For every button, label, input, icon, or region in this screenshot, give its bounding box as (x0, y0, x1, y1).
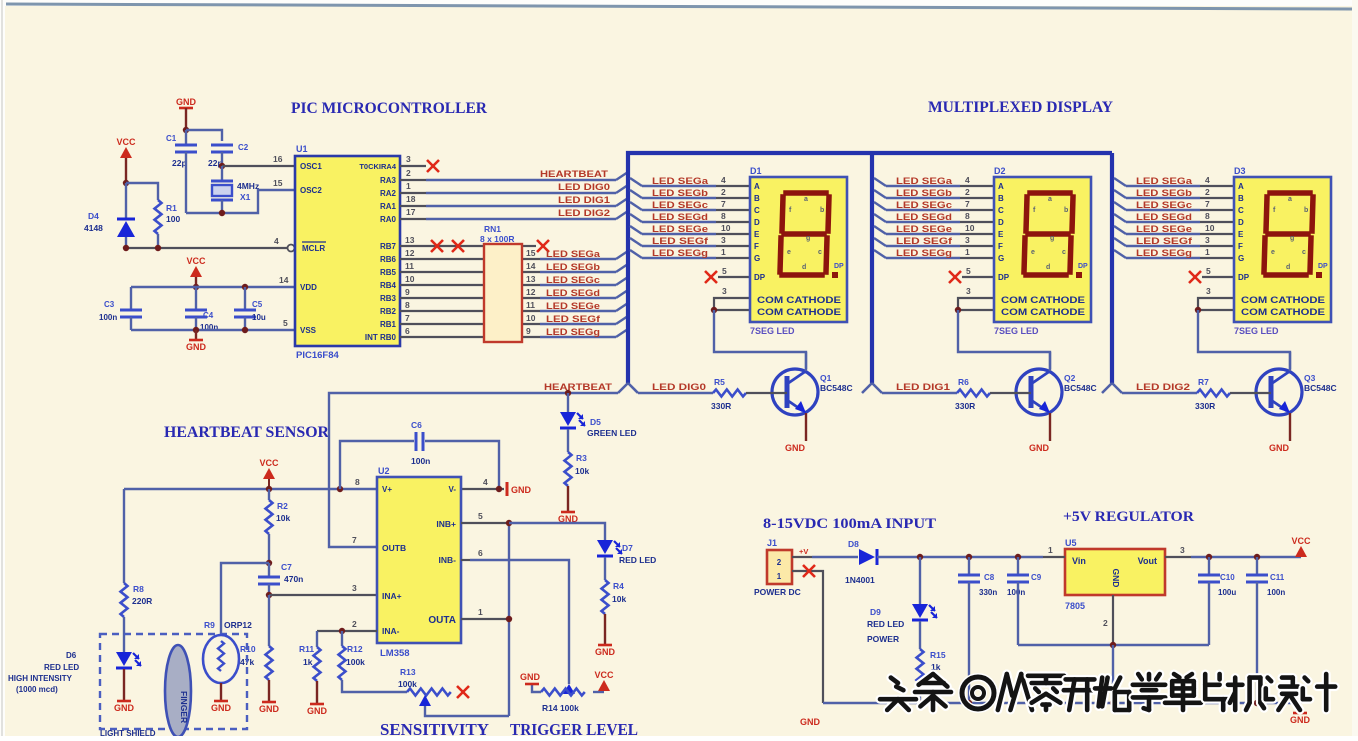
ground under LDR (211, 701, 232, 713)
ground under C4 (186, 340, 207, 352)
wire INB- pin (461, 559, 470, 561)
svg-text:VCC: VCC (116, 137, 136, 147)
wire to D7 (509, 523, 605, 540)
svg-text:C8: C8 (984, 573, 995, 582)
ground at R14 left (525, 683, 539, 686)
svg-text:2: 2 (352, 619, 357, 629)
svg-text:8-15VDC 100mA INPUT: 8-15VDC 100mA INPUT (763, 516, 936, 532)
svg-text:GND: GND (511, 485, 532, 495)
wire to C7 (268, 563, 270, 576)
svg-text:2: 2 (406, 168, 411, 178)
svg-text:4: 4 (483, 477, 488, 487)
svg-text:VSS: VSS (300, 326, 317, 335)
wire RB3 to RN1 (400, 297, 484, 299)
wire RA4 no-connect (400, 165, 426, 167)
svg-text:RN1: RN1 (484, 224, 501, 234)
wire INA- net (317, 630, 377, 632)
svg-text:GND: GND (307, 706, 328, 716)
svg-text:POWER DC: POWER DC (754, 587, 801, 597)
svg-text:HEARTBEAT: HEARTBEAT (540, 169, 609, 179)
no-connect style X at J1 (803, 565, 815, 577)
ground under R3 (558, 512, 579, 524)
capacitor C5 (234, 310, 256, 317)
svg-text:R4: R4 (613, 581, 624, 591)
svg-text:11: 11 (526, 300, 535, 310)
svg-text:17: 17 (406, 207, 416, 217)
svg-text:1: 1 (1048, 545, 1053, 555)
wire INB- to R14 wiper (470, 560, 569, 684)
svg-text:C7: C7 (281, 562, 292, 572)
wire RB1 to RN1 (400, 323, 484, 325)
svg-text:U2: U2 (378, 466, 390, 476)
svg-text:8 x 100R: 8 x 100R (480, 234, 515, 244)
svg-text:RA2: RA2 (380, 189, 397, 198)
no-connect X on RA4 (427, 160, 439, 172)
svg-text:(1000 mcd): (1000 mcd) (16, 685, 58, 694)
svg-text:INA+: INA+ (382, 591, 402, 601)
svg-text:LED SEGg: LED SEGg (546, 327, 600, 337)
svg-text:C6: C6 (411, 420, 422, 430)
svg-text:C11: C11 (1270, 573, 1285, 582)
display D1 (7-segment) with transistor Q1 (618, 175, 853, 453)
svg-text:C2: C2 (238, 143, 249, 152)
wire R14 right to VCC (593, 691, 604, 693)
svg-text:LED SEGd: LED SEGd (546, 288, 600, 298)
svg-text:R8: R8 (133, 584, 144, 594)
svg-text:INB+: INB+ (436, 519, 456, 529)
svg-text:12: 12 (526, 287, 536, 297)
svg-text:RA3: RA3 (380, 176, 397, 185)
wire VCC to R2 (268, 489, 270, 500)
wire net LED SEGf from RN1 to bus (522, 323, 540, 325)
finger (sensor target) (165, 645, 191, 737)
wire net LED DIG0 from PIC (400, 192, 426, 194)
svg-text:22p: 22p (172, 158, 187, 168)
wire RB6 to RN1 (400, 258, 484, 260)
diode D4 (125, 183, 127, 219)
svg-text:VCC: VCC (594, 670, 614, 680)
wire C1 bottom (185, 152, 187, 213)
svg-text:C1: C1 (166, 134, 177, 143)
wire J1 +V pin (792, 556, 812, 558)
wire VCC down (125, 158, 127, 183)
svg-text:Q2: Q2 (1064, 373, 1076, 383)
no-connect X at R13 end (457, 686, 469, 698)
svg-text:R3: R3 (576, 453, 587, 463)
wire to LDR (221, 563, 269, 636)
wire to R12 (341, 631, 343, 646)
capacitor C11 (1246, 575, 1268, 582)
svg-text:3: 3 (406, 154, 411, 164)
no-connect X on RB7 stub (452, 240, 464, 252)
svg-text:HEARTBEAT: HEARTBEAT (544, 382, 613, 392)
svg-text:RB7: RB7 (380, 242, 397, 251)
wire net LED SEGb from RN1 to bus (522, 271, 540, 273)
ground under R11 (307, 704, 328, 716)
svg-text:LED DIG1: LED DIG1 (558, 195, 610, 205)
svg-text:+V: +V (799, 547, 808, 556)
svg-text:D7: D7 (622, 543, 633, 553)
svg-text:INB-: INB- (439, 555, 457, 565)
wire RB7 to RN1 (400, 245, 484, 247)
display D2 (7-segment) with transistor Q2 (862, 175, 1097, 453)
ground at op-amp V- (506, 482, 509, 496)
svg-text:GND: GND (186, 342, 207, 352)
wire C2 bottom to OSC1 node (221, 152, 223, 166)
svg-text:6: 6 (478, 548, 483, 558)
ground under R10 (259, 702, 280, 714)
svg-text:D1: D1 (750, 166, 762, 176)
svg-text:10k: 10k (612, 594, 626, 604)
potentiometer R14 (trigger level) (563, 684, 575, 694)
svg-text:OSC1: OSC1 (300, 162, 322, 171)
svg-text:9: 9 (526, 326, 531, 336)
svg-text:Q3: Q3 (1304, 373, 1316, 383)
svg-text:10: 10 (526, 313, 536, 323)
wire bus 3 vertical (1110, 153, 1114, 383)
potentiometer R13 (sensitivity) (407, 689, 451, 696)
svg-text:C3: C3 (104, 300, 115, 309)
svg-text:5: 5 (283, 318, 288, 328)
svg-text:TRIGGER LEVEL: TRIGGER LEVEL (510, 720, 638, 736)
svg-text:14: 14 (526, 261, 536, 271)
capacitor C10 (1198, 575, 1220, 582)
svg-text:OUTA: OUTA (428, 615, 456, 626)
svg-text:PIC MICROCONTROLLER: PIC MICROCONTROLLER (291, 100, 487, 117)
VCC at R14 right (598, 680, 610, 691)
VCC sensor (259, 458, 279, 479)
svg-text:7: 7 (405, 313, 410, 323)
svg-text:D5: D5 (590, 417, 601, 427)
svg-text:R1: R1 (166, 203, 177, 213)
svg-text:LED DIG2: LED DIG2 (1136, 382, 1190, 392)
svg-text:LED SEGf: LED SEGf (546, 314, 601, 324)
resistor R12 (339, 646, 346, 680)
svg-text:Vout: Vout (1138, 556, 1157, 566)
svg-text:10k: 10k (276, 513, 290, 523)
svg-text:Vin: Vin (1072, 556, 1086, 566)
svg-text:J1: J1 (767, 538, 777, 548)
svg-text:FINGER: FINGER (179, 691, 189, 723)
svg-text:RED LED: RED LED (867, 619, 904, 629)
svg-text:GND: GND (176, 97, 197, 107)
wire to C11 (1256, 557, 1258, 574)
svg-text:D3: D3 (1234, 166, 1246, 176)
wire VDD rail (131, 286, 295, 288)
svg-text:7805: 7805 (1065, 601, 1085, 611)
svg-text:HEARTBEAT SENSOR: HEARTBEAT SENSOR (164, 424, 329, 441)
svg-text:330n: 330n (979, 588, 997, 597)
wire riser to INB+ (508, 523, 510, 716)
wire cap C1 top stub (185, 130, 187, 144)
wire to R1 top (126, 183, 158, 200)
crystal X1 (221, 166, 223, 181)
svg-text:RED LED: RED LED (44, 663, 79, 672)
ground under D6 (114, 701, 135, 713)
wire segment bus (thick) with top rail (628, 153, 1112, 383)
svg-text:RB6: RB6 (380, 255, 397, 264)
svg-text:16: 16 (273, 154, 283, 164)
svg-text:13: 13 (405, 235, 415, 245)
wire U5 GND pin (1112, 595, 1114, 645)
svg-text:D8: D8 (848, 539, 859, 549)
svg-text:U1: U1 (296, 144, 308, 154)
wire C4 top (195, 287, 197, 309)
svg-text:15: 15 (526, 248, 536, 258)
svg-text:LED SEGc: LED SEGc (546, 275, 600, 285)
svg-text:LED DIG0: LED DIG0 (652, 382, 706, 392)
svg-text:2: 2 (777, 558, 782, 567)
wire R1 bottom (157, 234, 159, 248)
display D3 (7-segment) with transistor Q3 (1102, 175, 1337, 453)
svg-text:GREEN LED: GREEN LED (587, 428, 637, 438)
svg-text:GND: GND (114, 703, 135, 713)
svg-text:C5: C5 (252, 300, 263, 309)
wire net LED DIG2 from PIC (400, 218, 426, 220)
wire GND to caps (185, 108, 187, 130)
svg-text:3: 3 (1180, 545, 1185, 555)
capacitor C3 (120, 310, 142, 317)
svg-text:4: 4 (274, 236, 279, 246)
svg-text:R11: R11 (299, 644, 314, 654)
svg-text:R12: R12 (347, 644, 363, 654)
svg-text:1: 1 (406, 181, 411, 191)
wire +V to D8 (812, 556, 858, 558)
svg-text:100n: 100n (99, 313, 117, 322)
svg-text:6: 6 (405, 326, 410, 336)
svg-text:D9: D9 (870, 607, 881, 617)
svg-text:100k: 100k (346, 657, 365, 667)
svg-text:GND: GND (211, 703, 232, 713)
wire R14 left to GND (532, 685, 541, 692)
svg-text:VDD: VDD (300, 283, 317, 292)
VCC for MCLR pullup (116, 137, 136, 158)
resistor network RN1 (484, 244, 522, 342)
svg-text:R13: R13 (400, 667, 416, 677)
svg-text:RED LED: RED LED (619, 555, 656, 565)
wire net LED SEGc from RN1 to bus (522, 284, 540, 286)
wire VCC rail of sensor (124, 488, 377, 490)
svg-text:1: 1 (478, 607, 483, 617)
svg-text:T0CKIRA4: T0CKIRA4 (359, 162, 397, 171)
svg-text:Q1: Q1 (820, 373, 832, 383)
capacitor C6 (416, 432, 423, 451)
resistor R10 (266, 646, 273, 680)
svg-text:LED SEGa: LED SEGa (546, 249, 601, 259)
diode D8 1N4001 (859, 549, 875, 565)
svg-text:INT RB0: INT RB0 (365, 333, 397, 342)
resistor R4 (602, 580, 609, 614)
svg-text:10u: 10u (252, 313, 266, 322)
wire OSC1 pin (222, 165, 295, 167)
capacitor C2 (211, 145, 233, 152)
svg-text:V-: V- (448, 485, 456, 494)
wire C3 top (130, 287, 132, 309)
svg-text:11: 11 (405, 261, 414, 271)
svg-text:R5: R5 (714, 377, 725, 387)
svg-text:100k: 100k (398, 679, 417, 689)
svg-text:SENSITIVITY: SENSITIVITY (380, 720, 489, 736)
svg-text:15: 15 (273, 178, 283, 188)
connector J1 (767, 550, 792, 584)
wire C5 top (244, 287, 246, 309)
wire J1 pin1 to ground rail (792, 571, 823, 703)
svg-text:GND: GND (800, 717, 821, 727)
ground at output rail (1290, 713, 1311, 725)
svg-text:LIGHT SHIELD: LIGHT SHIELD (100, 729, 156, 736)
svg-text:7SEG LED: 7SEG LED (750, 326, 795, 336)
VCC for VDD (186, 256, 206, 277)
dashed sensor enclosure box (100, 634, 247, 729)
svg-text:14: 14 (279, 275, 289, 285)
wire MCLR net (126, 247, 287, 249)
resistor R2 (266, 500, 273, 534)
ground under R4 (595, 645, 616, 657)
svg-text:C9: C9 (1031, 573, 1042, 582)
svg-text:470n: 470n (284, 574, 303, 584)
svg-text:D6: D6 (66, 651, 77, 660)
svg-text:ORP12: ORP12 (224, 620, 252, 630)
svg-text:POWER: POWER (867, 634, 899, 644)
svg-text:INA-: INA- (382, 626, 400, 636)
wire regulator ground link (1018, 644, 1209, 646)
svg-text:OSC2: OSC2 (300, 186, 322, 195)
wire RB4 to RN1 (400, 284, 484, 286)
wire RB5 to RN1 (400, 271, 484, 273)
LED D7 (red) (597, 540, 622, 556)
svg-text:GND: GND (1111, 569, 1121, 588)
wire to C10 (1208, 557, 1210, 574)
svg-text:HIGH INTENSITY: HIGH INTENSITY (8, 674, 73, 683)
wire to D9 (919, 557, 921, 604)
svg-text:LM358: LM358 (380, 648, 410, 659)
wire R13 wiper (425, 706, 509, 716)
svg-text:D2: D2 (994, 166, 1006, 176)
svg-text:LED SEGb: LED SEGb (546, 262, 601, 272)
wire OUTA pin (461, 618, 509, 620)
svg-text:OUTB: OUTB (382, 543, 406, 553)
op-amp U2 LM358 (377, 477, 461, 643)
resistor R8 (121, 583, 128, 617)
svg-text:GND: GND (595, 647, 616, 657)
wire INB+ pin (461, 522, 509, 524)
wire RB0 to RN1 (400, 336, 484, 338)
svg-text:8: 8 (355, 477, 360, 487)
svg-text:4MHz: 4MHz (237, 181, 259, 191)
svg-text:1: 1 (777, 572, 782, 581)
wire RB2 to RN1 (400, 310, 484, 312)
LDR R9 ORP12 (203, 635, 239, 683)
svg-text:R6: R6 (958, 377, 969, 387)
capacitor C4 (185, 310, 207, 317)
svg-text:8: 8 (405, 300, 410, 310)
wire OSC2 net (186, 190, 295, 213)
wire V- pin to GND (461, 488, 504, 490)
svg-text:RB1: RB1 (380, 320, 397, 329)
regulator U5 7805 (1065, 549, 1165, 595)
svg-text:GND: GND (520, 672, 541, 682)
svg-text:7SEG LED: 7SEG LED (994, 326, 1039, 336)
svg-text:4148: 4148 (84, 223, 103, 233)
svg-text:R15: R15 (930, 650, 946, 660)
LED D9 (power) (912, 604, 937, 620)
svg-text:10k: 10k (575, 466, 589, 476)
wire net LED SEGe from RN1 to bus (522, 310, 540, 312)
svg-text:VCC: VCC (186, 256, 206, 266)
wire bottom ground rail (823, 702, 1300, 704)
svg-text:RB5: RB5 (380, 268, 397, 277)
wire to R10 (268, 595, 270, 646)
svg-text:100n: 100n (411, 456, 430, 466)
wire bus 2 vertical (870, 153, 874, 383)
wire net LED SEGg from RN1 to bus (522, 336, 540, 338)
svg-text:10: 10 (405, 274, 415, 284)
svg-text:C4: C4 (203, 311, 214, 320)
svg-text:VCC: VCC (1291, 536, 1311, 546)
wire regulated VCC rail (1191, 556, 1301, 558)
wire Vout pin (1165, 556, 1191, 558)
no-connect X on RB7 (431, 240, 443, 252)
svg-text:MULTIPLEXED DISPLAY: MULTIPLEXED DISPLAY (928, 99, 1113, 116)
svg-text:GND: GND (1290, 715, 1311, 725)
svg-text:VCC: VCC (259, 458, 279, 468)
no-connect X after RN1 (537, 240, 549, 252)
resistor R11 (314, 647, 321, 681)
svg-text:MCLR: MCLR (302, 244, 325, 253)
svg-text:1k: 1k (303, 657, 313, 667)
svg-text:3: 3 (352, 583, 357, 593)
wire net HEARTBEAT from PIC (400, 179, 426, 181)
LED D5 (green) (560, 412, 585, 428)
svg-text:7: 7 (352, 535, 357, 545)
svg-text:V+: V+ (382, 485, 392, 494)
svg-text:C10: C10 (1220, 573, 1235, 582)
op PIC microcontroller U1 (295, 156, 400, 346)
capacitor C9 (1007, 575, 1029, 582)
svg-text:RB3: RB3 (380, 294, 397, 303)
svg-text:LED SEGe: LED SEGe (546, 301, 600, 311)
svg-text:100n: 100n (1007, 588, 1025, 597)
svg-text:1N4001: 1N4001 (845, 575, 875, 585)
svg-text:RA0: RA0 (380, 215, 397, 224)
capacitor C7 (258, 577, 280, 584)
wire to D5 (567, 393, 569, 412)
wire to C9 (1017, 557, 1019, 574)
svg-text:PIC16F84: PIC16F84 (296, 350, 339, 361)
wire net HEARTBEAT to sensor (329, 393, 618, 547)
node OSC1 junction (219, 163, 225, 169)
wire Vin pin (1043, 556, 1065, 558)
svg-text:100: 100 (166, 214, 180, 224)
svg-text:13: 13 (526, 274, 536, 284)
svg-text:9: 9 (405, 287, 410, 297)
wire net LED SEGa from RN1 to bus (522, 258, 540, 260)
svg-text:220R: 220R (132, 596, 152, 606)
wire R12 to R13 (342, 680, 407, 692)
resistor R3 (565, 452, 572, 486)
capacitor C1 (175, 145, 197, 152)
wire INA+ net (269, 594, 377, 596)
svg-text:X1: X1 (240, 192, 251, 202)
wire VSS rail (131, 329, 295, 331)
svg-text:R14 100k: R14 100k (542, 703, 579, 713)
wire to R11 (316, 631, 318, 647)
svg-text:18: 18 (406, 194, 416, 204)
wire to C8 (968, 557, 970, 574)
svg-text:R7: R7 (1198, 377, 1209, 387)
svg-text:RB2: RB2 (380, 307, 397, 316)
capacitor C8 (958, 575, 980, 582)
